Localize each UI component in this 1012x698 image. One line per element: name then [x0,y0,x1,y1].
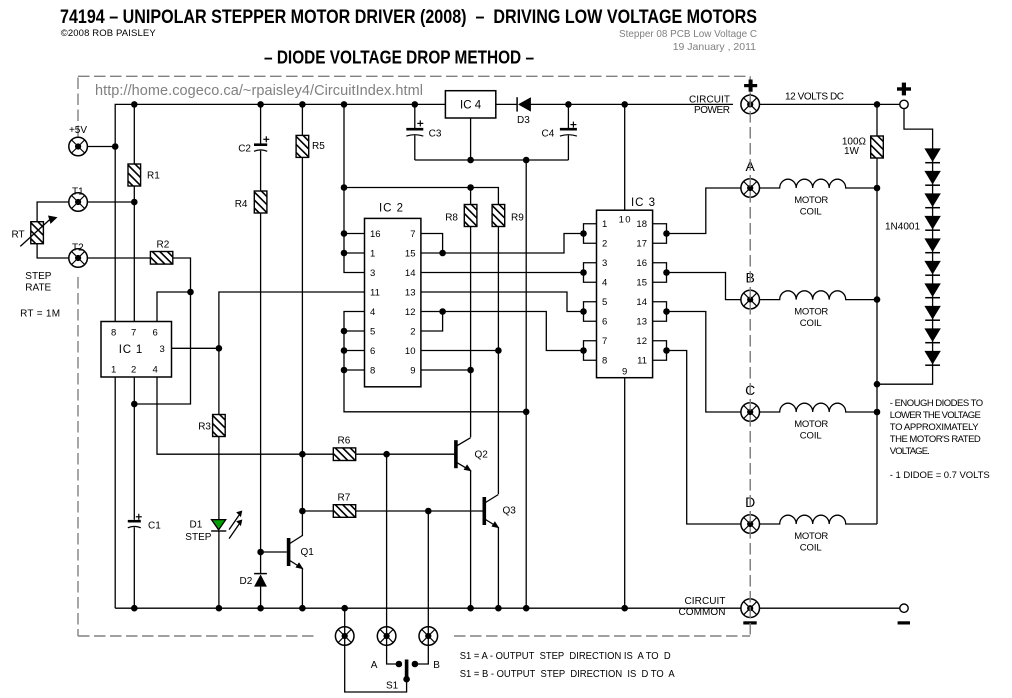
junction: IC3 in5/6 [580,308,587,315]
wire [531,103,734,105]
svg-text:R5: R5 [312,141,325,152]
wire: IC3 left bracket pins 3/4 [584,263,597,283]
svg-text:COIL: COIL [800,543,822,554]
connector: step pulse out [335,627,354,646]
svg-text:13: 13 [405,287,416,298]
wire: IC2 pin 15 to IC3 pins 1/2 [421,234,584,254]
svg-text:- ENOUGH DIODES TO: - ENOUGH DIODES TO [890,398,983,409]
svg-text:15: 15 [636,278,647,289]
IC3 shift register [597,197,656,378]
wire: IC1 pin 3 output [172,347,219,349]
wire: IC1 pin 8 column [114,147,116,322]
junction: rail R5 [299,101,306,108]
svg-text:Q1: Q1 [301,547,315,558]
junction: 12V C4 [565,101,572,108]
wire: IC3 left bracket pins 1/2 [584,224,597,244]
svg-text:S1 = A - OUTPUT STEP DIRECTI: S1 = A - OUTPUT STEP DIRECTION IS A TO D [460,651,671,662]
junction: coil A [874,185,881,192]
wire: IC2 ground column pins 4,5,6,8 [344,312,526,412]
wire: common rail to external terminal [760,607,900,609]
capacitor C1 [128,514,161,608]
svg-text:STEP: STEP [25,271,51,282]
svg-text:10: 10 [405,346,416,357]
svg-text:18: 18 [636,219,647,230]
diode 1N4001 #2 [924,171,940,185]
junction: IC2 pin8 [341,367,348,374]
svg-text:11: 11 [370,287,380,298]
transistor Q1 [261,511,315,608]
svg-text:http://home.cogeco.ca/~rpaisle: http://home.cogeco.ca/~rpaisley4/Circuit… [95,83,423,99]
junction: IC3 out12/11 [663,347,670,354]
wire: connector to S1 pole B [415,645,428,664]
svg-text:D2: D2 [240,576,253,587]
resistor R5 [296,104,325,511]
junction: diode chain [874,381,881,388]
junction: R8 feed [341,184,348,191]
dashed board border: bottom edge left [78,635,318,637]
junction: IC3 in3/4 [580,269,587,276]
node: circuit power + mark [744,80,757,92]
wire: IC4 ground pin [470,118,472,160]
junction: IC2 pin16 [341,230,348,237]
svg-text:14: 14 [405,268,416,279]
connector: direction A [377,627,396,646]
svg-text:16: 16 [370,229,381,240]
svg-text:MOTOR: MOTOR [794,306,828,317]
motor coil B [760,291,878,329]
connector +5V [69,125,88,156]
dashed border overlay on right edge [749,95,751,636]
svg-text:STEP: STEP [185,532,211,543]
capacitor C2 [238,104,269,191]
junction: rail C2 [257,101,264,108]
wire: output A feed [667,188,741,234]
svg-text:12 VOLTS DC: 12 VOLTS DC [785,92,844,103]
svg-text:©2008 ROB PAISLEY: ©2008 ROB PAISLEY [61,28,157,39]
wire: IC2 pin 7 to pin 15 row [421,234,443,254]
diode 1N4001 #9 [924,328,940,342]
svg-text:9: 9 [622,366,627,377]
wire: IC2 pin 13 to IC3 pins 5/6 [421,292,584,312]
minus mark at external terminal [898,621,910,624]
svg-text:C1: C1 [148,520,161,531]
resistor R7 [302,492,483,517]
svg-text:B: B [433,660,440,671]
wire: +5V pad to rail [87,146,115,148]
wire: IC1 pin 4 to R6 [157,377,302,454]
junction: IC3 out16/15 [663,269,670,276]
svg-text:4: 4 [370,307,375,318]
svg-text:COIL: COIL [800,207,822,218]
junction: IC2 pin7/15 [439,250,446,257]
wire: output C feed [667,312,741,413]
junction: rail IC3 pin9 [621,605,628,612]
wire: IC2 left supply column pins 16,1,3 [344,104,365,272]
wire: connector to S1 pole A [387,645,399,664]
junction: rail R1 [131,101,138,108]
connector B [741,290,760,309]
junction: R6 left [299,451,306,458]
svg-text:COIL: COIL [800,431,822,442]
wire: bottom common rail [115,607,741,609]
svg-text:Stepper 08 PCB Low Voltage C: Stepper 08 PCB Low Voltage C [619,28,757,40]
connector: direction B [419,627,438,646]
LED D1 STEP [185,511,242,609]
transistor Q2 [454,438,488,609]
svg-text:1: 1 [370,248,375,259]
junction: +5V tap [112,143,119,150]
junction: rail Q1e [299,605,306,612]
svg-text:5: 5 [602,297,607,308]
svg-text:IC 1: IC 1 [119,344,143,356]
junction: rail D1 [216,605,223,612]
connector CIRCUIT COMMON [741,599,760,618]
svg-text:IC 2: IC 2 [379,203,403,215]
wire: 12 volts dc feed to 100 ohm and + terminal [760,103,900,105]
junction: coil B [874,296,881,303]
svg-text:8: 8 [602,356,607,367]
svg-text:A: A [371,660,378,671]
svg-text:C4: C4 [542,129,555,140]
svg-text:R3: R3 [198,421,211,432]
svg-text:2: 2 [602,239,607,250]
connector A [741,179,760,198]
junction: 12V IC3 pin10 [621,101,628,108]
dashed board border: left edge lower [77,277,79,636]
wire: S1 common return to step connector [345,645,407,692]
wire: IC2 pin 10 to R9 [421,350,499,352]
wire: IC1 pin 1 to ground rail [114,377,116,608]
svg-text:8: 8 [111,327,116,338]
svg-text:R2: R2 [157,239,170,250]
svg-text:14: 14 [636,297,647,308]
svg-text:POWER: POWER [694,105,730,116]
svg-text:T2: T2 [72,242,84,253]
svg-text:7: 7 [131,327,136,338]
diode 1N4001 #6 [924,261,940,275]
IC4 regulator [445,91,495,118]
resistor R4 [235,184,267,552]
junction: IC3 out14/13 [663,308,670,315]
connector T2 [69,242,88,267]
IC1 oscillator [101,322,172,378]
junction: osc node [187,289,194,296]
+ mark at external terminal [897,83,911,96]
wire: IC3 right bracket pins 12/11 [653,341,667,361]
connector C [741,403,760,422]
svg-text:COMMON: COMMON [679,607,726,618]
junction: T1 tap [131,199,138,206]
wire: IC3 right bracket pins 18/17 [653,224,667,244]
junction: S1 pole B [412,661,419,668]
capacitor C4 [542,104,577,160]
diode D3 [517,97,531,126]
wire: IC1 pin 2 timing column [133,377,135,520]
svg-text:1N4001: 1N4001 [885,221,920,232]
svg-text:CIRCUIT: CIRCUIT [685,596,726,607]
transistor Q3 [483,495,517,609]
junction: S1 common [403,676,410,683]
svg-text:R6: R6 [338,436,351,447]
potentiometer RT [12,202,69,259]
wire: ground drop from regulator bus to bottom rail [525,160,527,608]
wire: IC2 pin 2 bracket [421,312,443,332]
external 12V terminal [900,100,908,108]
wire: step connector pass-through [345,627,429,645]
wire: IC3 right bracket pins 14/13 [653,302,667,322]
note: enough diodes [890,398,990,481]
svg-text:MOTOR: MOTOR [794,195,828,206]
svg-text:Q2: Q2 [475,450,489,461]
wire: IC3 right bracket pins 16/15 [653,263,667,283]
wire: IC2 pin 14 to IC3 pins 3/4 [421,272,584,274]
junction: IC3 out18/17 [663,230,670,237]
dashed board border: right edge [749,95,751,636]
dashed board border: left edge upper [77,78,79,138]
dashed board border: top-right corner joint [749,76,751,95]
svg-text:Q3: Q3 [503,506,517,517]
external common terminal [900,604,908,612]
junction: rail gnd drop [523,605,530,612]
svg-text:MOTOR: MOTOR [794,419,828,430]
wire: IC3 left bracket pins 7/8 [584,341,597,361]
diode 1N4001 #7 [924,283,940,297]
junction: R6 right [383,451,390,458]
svg-text:VOLTAGE.: VOLTAGE. [890,446,930,457]
junction: Q1 base [257,549,264,556]
wire: T1 to R1 column [87,201,134,203]
junction: rail step conn [341,605,348,612]
svg-text:1W: 1W [844,146,860,157]
junction: rail C3 [412,101,419,108]
svg-text:RT = 1M: RT = 1M [20,308,60,319]
junction: R7 left [299,508,306,515]
diode D2 [240,552,267,608]
junction: R9 bottom [495,347,502,354]
wire: regulator ground bus [415,159,569,161]
wire: +5V rail (top) [115,104,445,146]
junction: rail Q3e [495,605,502,612]
junction: IC1 pin3 node [216,345,223,352]
svg-text:74194 – UNIPOLAR STEPPER MOTOR: 74194 – UNIPOLAR STEPPER MOTOR DRIVER (2… [60,6,757,28]
connector T1 [69,186,88,211]
svg-text:R4: R4 [235,199,248,210]
svg-text:COIL: COIL [800,318,822,329]
resistor R1 [128,104,160,321]
svg-text:S1 = B - OUTPUT STEP DIRECTI: S1 = B - OUTPUT STEP DIRECTION IS D TO A [460,669,675,680]
wire: IC1 pin 6 to oscillator node [157,292,191,322]
minus mark at circuit common [743,621,756,624]
svg-text:6: 6 [370,346,375,357]
svg-text:4: 4 [602,278,607,289]
svg-text:16: 16 [636,258,647,269]
svg-text:6: 6 [602,317,607,328]
motor coil C [760,403,878,441]
svg-text:R8: R8 [445,212,458,223]
svg-text:– DIODE VOLTAGE DROP METHOD –: – DIODE VOLTAGE DROP METHOD – [264,48,534,68]
IC2 counter [365,203,421,387]
svg-text:3: 3 [602,258,607,269]
motor coil A [760,179,878,217]
svg-text:RATE: RATE [25,282,51,293]
junction: IC3 in1/2 [580,230,587,237]
svg-text:11: 11 [637,356,647,367]
diode 1N4001 #4 [924,216,940,230]
svg-text:1: 1 [602,219,607,230]
junction: timing node [131,401,138,408]
svg-text:2: 2 [131,365,136,376]
diode 1N4001 #3 [924,193,940,207]
svg-text:2: 2 [410,326,415,337]
svg-text:LOWER THE VOLTAGE: LOWER THE VOLTAGE [890,410,981,421]
resistor R2 [87,239,190,404]
motor coil D [760,515,878,553]
dashed board border: top edge [78,75,747,77]
diode 1N4001 #8 [924,306,940,320]
junction: rail IC2 col [341,101,348,108]
svg-text:THE MOTOR'S RATED: THE MOTOR'S RATED [890,434,981,445]
svg-text:- 1 DIDOE = 0.7 VOLTS: - 1 DIDOE = 0.7 VOLTS [890,470,990,481]
svg-text:8: 8 [370,365,375,376]
junction: rail D2 [257,605,264,612]
svg-text:15: 15 [405,248,416,259]
svg-text:3: 3 [160,344,165,355]
wire: diode chain spine [877,148,933,384]
svg-text:13: 13 [636,317,647,328]
svg-text:IC 3: IC 3 [631,197,655,209]
svg-text:TO APPROXIMATELY: TO APPROXIMATELY [890,422,979,433]
svg-text:4: 4 [153,365,158,376]
wire: terminal to diode chain [904,109,933,148]
junction: gnd drop top [523,157,530,164]
junction: IC2 pin12/2 [439,308,446,315]
resistor R6 [302,436,455,461]
junction: IC2 pin6 [341,347,348,354]
wire: R8/R9 supply branch [344,188,498,205]
diode 1N4001 #5 [924,238,940,252]
wire: step pulse connector drop [344,608,346,627]
svg-text:S1: S1 [386,680,399,691]
junction: R8 top [467,184,474,191]
junction: R8 bottom [467,367,474,374]
svg-text:7: 7 [410,229,415,240]
dashed board border: bottom edge right [454,635,750,637]
resistor 100 ohm 1W [842,129,883,174]
junction: IC3 in7/8 [580,347,587,354]
svg-text:9: 9 [410,365,415,376]
junction: IC2 pin1 [341,250,348,257]
connector D [741,515,760,534]
svg-text:IC 4: IC 4 [460,99,482,111]
svg-text:D3: D3 [517,115,530,126]
svg-text:RT: RT [12,229,25,240]
svg-text:19 January , 2011: 19 January , 2011 [673,41,756,53]
junction: S1 pole A [396,661,403,668]
resistor R3 [198,348,225,519]
svg-text:T1: T1 [72,186,84,197]
wire: output D feed [667,351,741,525]
svg-text:1: 1 [111,365,116,376]
junction: coil C [874,409,881,416]
wire: phase A sense drop [386,454,388,627]
svg-text:10: 10 [619,214,631,225]
wire: IC3 pin 10 supply [624,104,626,210]
junction: IC2 pin5 [341,328,348,335]
svg-text:D1: D1 [190,519,203,530]
resistor R8 [445,188,477,438]
wire: IC2 pin 11 to IC1 node [219,292,365,348]
wire: 100 ohm to coil bus [876,104,878,524]
junction: rail Q2e [467,605,474,612]
junction: R7 right [425,508,432,515]
wire: IC3 pin 9 ground [624,378,626,609]
diode 1N4001 #1 [924,148,940,162]
wire: output B feed [667,273,741,300]
svg-text:5: 5 [370,326,375,337]
connector CIRCUIT POWER [741,95,760,114]
svg-text:+5V: +5V [69,125,87,136]
junction: 12V 100ohm [874,101,881,108]
svg-text:7: 7 [602,336,607,347]
svg-text:17: 17 [636,239,647,250]
junction: IC4 gnd [467,157,474,164]
junction: gnd cross [523,409,530,416]
wire: 12V line from IC4 output through D3 to circuit power [496,103,517,105]
svg-text:C2: C2 [238,144,251,155]
wire: IC3 left bracket pins 5/6 [584,302,597,322]
svg-text:C3: C3 [429,129,442,140]
wire: IC2 pin 12 to IC3 pins 7/8 [421,312,584,351]
capacitor C3 [406,104,442,160]
junction: rail C1 [131,605,138,612]
svg-text:6: 6 [153,327,158,338]
switch S1 [371,660,441,692]
svg-text:3: 3 [370,268,375,279]
svg-text:MOTOR: MOTOR [794,531,828,542]
svg-text:12: 12 [636,336,647,347]
resistor R9 [492,198,524,495]
wire: phase B sense drop [427,511,429,627]
wire: IC2 pin 9 to R8 [421,369,471,371]
svg-text:12: 12 [405,307,416,318]
diode 1N4001 #10 [924,351,940,365]
svg-text:R7: R7 [338,492,351,503]
svg-text:R1: R1 [147,171,160,182]
svg-text:R9: R9 [511,212,524,223]
